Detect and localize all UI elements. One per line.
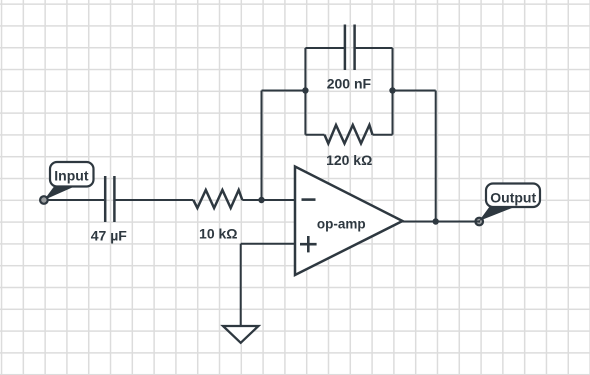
- junction node output: [433, 218, 439, 224]
- svg-text:120 kΩ: 120 kΩ: [326, 152, 372, 168]
- svg-text:47 µF: 47 µF: [91, 227, 128, 243]
- svg-text:Output: Output: [490, 189, 536, 205]
- svg-text:op-amp: op-amp: [317, 216, 366, 231]
- wire parallel-box left vertical: [304, 48, 306, 135]
- resistor R1 10 kΩ: [193, 190, 242, 208]
- wire feedback dropper right: [435, 91, 437, 222]
- wire top branch right: [355, 47, 393, 49]
- output terminal: [475, 218, 483, 226]
- wire bottom branch right: [373, 134, 393, 136]
- capacitor C2 200 nF: [345, 25, 355, 71]
- ground: [223, 326, 258, 343]
- svg-text:10 kΩ: 10 kΩ: [199, 226, 237, 242]
- wire non-inverting input: [241, 243, 295, 245]
- output label pointer: [479, 206, 517, 221]
- wire feedback riser left: [261, 91, 263, 201]
- output label box: [486, 184, 540, 208]
- input label pointer: [44, 185, 79, 201]
- wire feedback right horizontal: [393, 90, 436, 92]
- wire output segment: [403, 221, 481, 223]
- wire parallel-box right vertical: [392, 48, 394, 135]
- capacitor C1 47 µF: [105, 176, 114, 222]
- junction node left of RC pair: [302, 87, 308, 93]
- wire C1 to R1: [114, 199, 193, 201]
- svg-text:Input: Input: [54, 168, 89, 184]
- wire R1 to op-amp inverting input: [242, 199, 295, 201]
- wire top branch left: [305, 47, 345, 49]
- wire input segment: [44, 199, 105, 201]
- op-amp U1: [295, 167, 403, 276]
- junction node A (inverting input): [258, 197, 264, 203]
- input label box: [50, 162, 94, 187]
- svg-text:200 nF: 200 nF: [327, 76, 372, 92]
- wire ground dropper: [240, 244, 242, 326]
- wire feedback left horizontal: [262, 90, 306, 92]
- input terminal: [40, 196, 48, 204]
- junction node right of RC pair: [389, 87, 395, 93]
- resistor R2 120 kΩ: [325, 125, 373, 144]
- wire bottom branch left: [305, 134, 324, 136]
